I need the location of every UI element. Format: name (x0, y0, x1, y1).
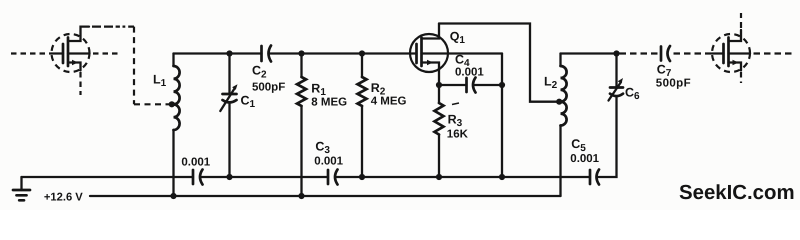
transistor Q1 (410, 24, 502, 86)
capacitor C2 (262, 46, 272, 62)
wire: top bus from C2 to Q1 gate (270, 52, 417, 54)
transistor (phantom, right stage) (712, 13, 793, 83)
wire: Q1 drain top rail (439, 24, 559, 102)
svg-text:500pF: 500pF (252, 81, 285, 93)
capacitor C6 (variable) (609, 54, 624, 101)
wire: phantom riser down (133, 27, 135, 105)
svg-text:500pF: 500pF (656, 78, 691, 90)
node: C6 junction (613, 50, 619, 56)
svg-text:0.001: 0.001 (570, 153, 599, 165)
wire: ground bus segment A (ground to bypass cap) (22, 176, 194, 178)
wire: Q1 substrate riser down (501, 54, 503, 178)
capacitor C5 (590, 170, 599, 185)
node: R1 top (298, 50, 304, 56)
capacitor bypass 0.001 (left) (193, 170, 203, 185)
svg-text:C6: C6 (625, 86, 640, 103)
wire: top bus from L1 to C2 (174, 52, 262, 54)
node: Q1 source / C4 left (436, 82, 442, 88)
svg-text:C3: C3 (315, 140, 330, 157)
node: R2 top (359, 50, 365, 56)
transistor (phantom, left stage) (11, 27, 119, 95)
node: C1 bottom (226, 174, 232, 180)
svg-text:C1: C1 (241, 94, 256, 111)
svg-text:0.001: 0.001 (181, 157, 210, 169)
node: R3 bottom (436, 174, 442, 180)
capacitor C7 (661, 46, 670, 61)
ground symbol (13, 177, 30, 200)
wire: phantom to L1 tap (134, 103, 171, 105)
node: L1 tap (169, 101, 175, 107)
svg-text:8 MEG: 8 MEG (311, 96, 347, 108)
resistor R2 (358, 54, 367, 178)
capacitor C3 (328, 170, 338, 185)
node: C1 top (226, 50, 232, 56)
svg-text:0.001: 0.001 (314, 155, 343, 167)
svg-text:R3: R3 (448, 112, 463, 129)
svg-text:+12.6 V: +12.6 V (44, 192, 83, 204)
wire: top bus L2 to C6 junction (561, 52, 617, 54)
capacitor C1 (variable) (220, 54, 237, 178)
wire: phantom drain route (dash-dot) (92, 26, 134, 28)
svg-text:4 MEG: 4 MEG (371, 96, 407, 108)
svg-text:0.001: 0.001 (455, 66, 484, 78)
resistor R3 (435, 85, 444, 177)
wire: ground bus segment C (to C5) (336, 176, 591, 178)
node: L2 tap (556, 99, 562, 105)
inductor L2 (561, 54, 567, 197)
svg-text:16K: 16K (447, 129, 469, 141)
svg-text:L1: L1 (153, 73, 167, 90)
svg-text:C2: C2 (252, 64, 267, 81)
wire: dashed C7 to next stage (674, 52, 713, 54)
capacitor C4 (439, 78, 502, 93)
svg-text:L2: L2 (544, 75, 558, 92)
node: R2 bottom (359, 174, 365, 180)
stray mark (452, 103, 459, 105)
wire: dashed output to C7 (620, 52, 658, 54)
wire: +12.6V rail (90, 195, 561, 197)
svg-text:C7: C7 (657, 62, 672, 79)
node: R1 to +12.6V rail (298, 193, 304, 199)
wire: ground bus segment B (to C3) (201, 176, 329, 178)
node: substrate riser to ground (499, 174, 505, 180)
wire: ground bus segment D with riser to C6 junction (597, 96, 617, 177)
node: C4 right (499, 82, 505, 88)
resistor R1 (297, 54, 306, 197)
node: L1 to +12.6V rail (170, 193, 176, 199)
inductor L1 (174, 54, 180, 197)
svg-text:Q1: Q1 (450, 29, 466, 46)
svg-text:SeekIC.com: SeekIC.com (679, 182, 795, 204)
svg-text:C5: C5 (571, 137, 586, 154)
